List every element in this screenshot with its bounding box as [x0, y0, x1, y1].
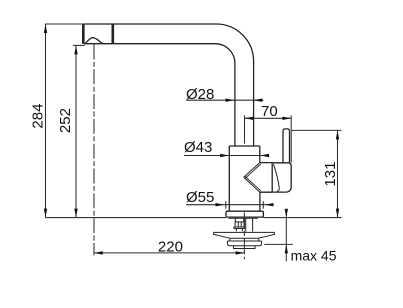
arrow max45 bottom (points up)	[285, 245, 288, 254]
arrow 220 left	[94, 251, 103, 254]
arrow 252 up	[74, 46, 77, 55]
arrow Ø55 left	[216, 203, 225, 206]
svg-text:Ø28: Ø28	[186, 86, 214, 103]
spout outer outline	[83, 24, 254, 146]
threaded stud with nut	[234, 219, 245, 232]
svg-text:252: 252	[57, 108, 74, 133]
wedge joint lower diagonal	[244, 177, 260, 192]
arrow Ø28 right (points left at tube wall)	[254, 99, 263, 102]
extension line 252 outlet	[73, 44, 85, 46]
extension 70 right / lever face	[290, 115, 292, 162]
handle grip block	[272, 163, 291, 192]
spout joint	[112, 24, 115, 44]
base plate inner bottom edge	[229, 217, 259, 219]
extension tick Ø55 left	[225, 201, 227, 209]
arrow Ø43 right	[260, 154, 269, 157]
arrow 220 right	[236, 251, 245, 254]
dim line 220	[94, 252, 244, 254]
dim line 131	[337, 130, 339, 217]
svg-text:220: 220	[158, 239, 183, 256]
dim line 284	[45, 24, 47, 218]
arrow 131 up	[336, 131, 339, 140]
dim line 252	[75, 45, 77, 217]
svg-text:284: 284	[29, 104, 46, 129]
base plate	[226, 211, 263, 217]
dim line Ø28 leader	[186, 99, 264, 101]
arrow 284 up	[44, 24, 47, 33]
dim line 70	[245, 117, 292, 119]
dim line Ø43 leader	[184, 155, 269, 157]
centerline faucet axis lower	[243, 213, 245, 260]
mounting clamp plate	[214, 232, 275, 238]
spout end cap	[82, 24, 85, 44]
extension max45 bottom	[264, 243, 293, 245]
wedge joint upper diagonal	[244, 163, 260, 178]
arrow 70 right	[282, 117, 291, 120]
lever bar	[283, 129, 290, 163]
arrow 284 down	[44, 209, 47, 218]
grip front edge diagonal	[274, 164, 280, 191]
svg-text:Ø55: Ø55	[186, 189, 214, 206]
dim line max45	[285, 210, 287, 261]
extension 70 left	[244, 115, 246, 143]
dim line Ø55 leader	[186, 204, 272, 206]
spacer ring	[230, 238, 259, 241]
svg-text:131: 131	[322, 162, 339, 187]
arrow max45 top (points down at countertop)	[285, 209, 288, 218]
centerline outlet axis	[93, 45, 95, 256]
extension tick Ø55 right	[262, 201, 264, 209]
body Ø43	[229, 146, 260, 211]
handle cylinder	[260, 163, 273, 193]
lock nut	[227, 241, 261, 246]
arrow 252 down	[74, 209, 77, 218]
extension 131 top	[291, 129, 341, 131]
shank tube	[246, 218, 253, 231]
arrow Ø55 right	[265, 203, 274, 206]
lock nut collar	[233, 246, 256, 249]
arrow Ø28 left (points right at tube wall)	[226, 99, 235, 102]
svg-text:max 45: max 45	[291, 248, 337, 264]
arrow 131 down	[336, 209, 339, 218]
arrow Ø43 left	[220, 154, 229, 157]
extension line top 284	[45, 23, 83, 25]
countertop line right	[263, 217, 341, 219]
arrowheads	[44, 24, 339, 254]
aerator dome	[84, 38, 102, 44]
svg-text:70: 70	[261, 103, 278, 120]
spout inner outline	[84, 44, 235, 146]
svg-text:Ø43: Ø43	[184, 139, 212, 156]
arrow 70 left	[245, 117, 254, 120]
countertop line left	[46, 217, 227, 219]
